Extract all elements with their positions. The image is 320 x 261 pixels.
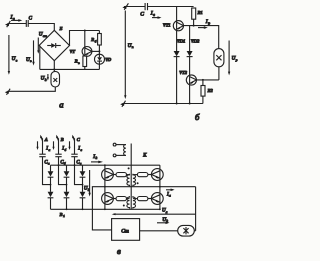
node center tap crossing bbox=[104, 186, 106, 188]
diode VD-B2 bbox=[64, 192, 70, 210]
transistor VT1 bbox=[163, 7, 184, 31]
svg-text:л: л bbox=[168, 194, 171, 198]
node bus-lamp junction bbox=[53, 68, 55, 70]
wire node to transistor base bbox=[84, 31, 86, 48]
transformer lower-right winding bbox=[133, 196, 136, 209]
label Uп voltage arrow bbox=[124, 11, 134, 100]
node lamp feed right pair bbox=[159, 186, 161, 188]
lamp EL (discharge lamp, circuit a) bbox=[51, 71, 60, 87]
svg-text:в: в bbox=[16, 59, 18, 63]
terminal phase C bbox=[72, 135, 81, 142]
svg-text:в: в bbox=[117, 246, 121, 256]
wire collector to node bbox=[92, 50, 100, 52]
node VT-TL collector on bus bbox=[104, 164, 106, 166]
label Iв current arrow bbox=[10, 15, 23, 22]
diode VD-C1 bbox=[80, 165, 86, 192]
wire bridge right corner to top-right rail bbox=[70, 31, 100, 46]
wire bus corner to VT-TR bbox=[159, 165, 161, 169]
svg-text:э: э bbox=[78, 61, 80, 65]
resistor Rб bbox=[90, 31, 101, 52]
wire lamp to bottom rail bbox=[8, 87, 56, 91]
base resistor R-BR bbox=[133, 197, 152, 201]
block St (stabilizer) bbox=[112, 219, 140, 241]
transistor VT-BL bbox=[102, 193, 114, 205]
terminal output bottom-left (circuit a) bbox=[5, 89, 10, 95]
label IC current arrow bbox=[68, 141, 82, 152]
wire VT-BL to bottom rail bbox=[104, 204, 106, 210]
svg-text:б: б bbox=[95, 39, 97, 43]
svg-text:VT1: VT1 bbox=[163, 22, 171, 27]
node bus crossing C bbox=[74, 164, 76, 166]
label Uд voltage arrow (dc link) bbox=[84, 170, 91, 197]
svg-text:VT2: VT2 bbox=[179, 70, 187, 75]
transistor VT-TL bbox=[102, 169, 114, 181]
terminal phase B bbox=[56, 135, 64, 142]
bridge rectifier Б (diamond) bbox=[39, 26, 69, 61]
label Uэ voltage arrow bbox=[26, 40, 35, 65]
svg-text:а: а bbox=[48, 162, 50, 166]
label Iр current arrow bbox=[198, 19, 210, 29]
wire collector rail to lamp bbox=[184, 26, 219, 49]
svg-text:C: C bbox=[29, 16, 33, 21]
capacitor C (circuit b) bbox=[140, 3, 147, 18]
label IB current arrow bbox=[52, 141, 66, 152]
transistor VT-TR bbox=[151, 169, 163, 181]
transformer primary lower-left winding bbox=[127, 196, 130, 209]
wire bottom rail (circuit b) bbox=[123, 103, 203, 105]
node R2 junction bbox=[202, 79, 204, 81]
svg-text:с: с bbox=[81, 148, 83, 152]
label Iд current arrow bbox=[91, 155, 103, 163]
node leg C bottom bbox=[82, 208, 84, 210]
transformer upper-right winding bbox=[133, 174, 136, 187]
diode VD-A2 bbox=[48, 192, 54, 210]
label Uу with arrow bbox=[157, 218, 170, 224]
svg-text:VD1: VD1 bbox=[177, 39, 185, 44]
label Iв current arrow (circuit b) bbox=[150, 11, 162, 19]
wire stabilizer to lamp bbox=[140, 230, 178, 232]
node collector junction bbox=[98, 50, 100, 52]
winding K (drive coil) bbox=[124, 145, 126, 156]
node leg B mid bbox=[66, 184, 68, 186]
label Uд voltage arrow (lamp a) bbox=[41, 74, 49, 82]
wire VT-TL emitter to VT-BL bbox=[104, 180, 106, 194]
wire lamp right lead bbox=[194, 230, 195, 232]
svg-text:C: C bbox=[140, 12, 144, 18]
drive winding terminals bbox=[113, 143, 126, 157]
wire capacitor to bridge top bbox=[28, 24, 54, 31]
wire bus to VT-TL bbox=[104, 165, 106, 169]
feedback arrow to stabilizer bbox=[112, 213, 196, 215]
svg-text:1: 1 bbox=[63, 214, 65, 218]
node R1 junction bbox=[193, 25, 195, 27]
wire capacitor to R1 top bbox=[148, 6, 194, 8]
wire phase A column lower with jog bbox=[43, 157, 51, 185]
node leg B bottom bbox=[66, 208, 68, 210]
svg-text:Ст: Ст bbox=[121, 229, 129, 235]
terminal input top-left (circuit b) bbox=[122, 3, 128, 10]
terminal input top-left (circuit a) bbox=[5, 21, 10, 27]
node leg C mid bbox=[82, 184, 84, 186]
node VT-BL emitter on rail bbox=[104, 208, 106, 210]
capacitor CА bbox=[39, 154, 50, 165]
svg-text:B: B bbox=[61, 137, 64, 142]
wire phase A column upper bbox=[42, 138, 44, 154]
transistor VT bbox=[70, 47, 92, 57]
svg-text:VD2: VD2 bbox=[191, 39, 200, 44]
wire VT-BR to bottom rail bbox=[159, 204, 161, 210]
diode VD2 bbox=[187, 26, 200, 76]
wire top dc bus bbox=[51, 164, 160, 166]
wire top (input to capacitor C) bbox=[8, 23, 27, 25]
wire top left to capacitor bbox=[124, 6, 145, 8]
svg-text:R1: R1 bbox=[197, 10, 203, 15]
diode VD-C2 bbox=[80, 192, 86, 210]
svg-text:а: а bbox=[49, 148, 51, 152]
svg-text:VD: VD bbox=[105, 57, 112, 62]
capacitor CB bbox=[55, 154, 66, 165]
terminal phase A bbox=[40, 135, 48, 142]
wire phase B column lower with jog bbox=[59, 157, 67, 185]
svg-text:р: р bbox=[235, 58, 238, 62]
diode VD1 bbox=[174, 30, 186, 104]
wire bottom dc rail bbox=[51, 208, 160, 210]
node leg A mid bbox=[50, 184, 52, 186]
node VT2 emitter junction bbox=[189, 103, 191, 105]
indicator VD (circle with cross) bbox=[95, 51, 112, 69]
transformer core bbox=[130, 144, 132, 210]
node VT-BR emitter on rail bbox=[159, 208, 161, 210]
svg-text:б: б bbox=[195, 112, 200, 122]
diode inside bridge bbox=[47, 43, 61, 48]
svg-text:л: л bbox=[165, 210, 168, 214]
wire center tap to stabilizer bbox=[92, 187, 195, 230]
svg-text:Б: Б bbox=[59, 26, 63, 31]
label B1 rectifier block bbox=[60, 212, 66, 218]
transistor VT2 bbox=[179, 70, 196, 85]
wire bridge bottom to lamp bbox=[53, 61, 55, 72]
svg-text:R: R bbox=[90, 37, 94, 42]
label IА current arrow bbox=[36, 141, 50, 152]
svg-text:К: К bbox=[142, 154, 147, 159]
wire VT2 emitter to bottom rail bbox=[189, 84, 191, 103]
svg-text:в: в bbox=[153, 13, 155, 17]
svg-text:р: р bbox=[207, 21, 210, 25]
svg-text:R2: R2 bbox=[207, 88, 214, 93]
transistor VT-BR bbox=[151, 193, 163, 205]
node bus crossing B bbox=[58, 164, 60, 166]
svg-text:вт: вт bbox=[43, 34, 47, 38]
capacitor C bbox=[26, 16, 32, 27]
wire phase B column upper bbox=[58, 138, 60, 154]
wire right frame down bbox=[195, 187, 197, 231]
polarity dot upper bbox=[137, 182, 139, 184]
base resistor R-TR bbox=[133, 173, 152, 177]
label Uр voltage arrow bbox=[228, 41, 238, 76]
node junction base feed bbox=[84, 30, 86, 32]
label Uв voltage arrow bbox=[8, 35, 18, 75]
terminal output bottom-left (circuit b) bbox=[120, 101, 125, 107]
label Uл bbox=[162, 209, 168, 214]
svg-text:R: R bbox=[74, 59, 78, 64]
wire phase C column lower with jog bbox=[75, 157, 83, 185]
svg-text:п: п bbox=[132, 45, 134, 49]
svg-text:A: A bbox=[44, 137, 48, 142]
label Iл current arrow bbox=[166, 189, 175, 198]
svg-text:э: э bbox=[30, 59, 32, 63]
svg-text:д: д bbox=[45, 78, 47, 82]
svg-text:д: д bbox=[96, 156, 98, 160]
svg-text:а: а bbox=[59, 100, 63, 110]
svg-text:В: В bbox=[60, 212, 63, 217]
transformer primary upper-left winding bbox=[127, 174, 130, 187]
base resistor R-TL bbox=[113, 173, 129, 177]
diode VD-A1 bbox=[48, 165, 54, 192]
lamp EL (discharge lamp, circuit b) bbox=[214, 49, 224, 80]
lamp EL (circuit v) bbox=[178, 225, 195, 236]
diode VD-B1 bbox=[64, 165, 70, 192]
base resistor R-BL bbox=[113, 197, 129, 201]
label Uвт voltage arrow bbox=[37, 32, 47, 54]
polarity dot lower bbox=[123, 205, 125, 207]
wire phase C column upper bbox=[74, 138, 76, 154]
wire bridge left corner down bbox=[39, 46, 41, 70]
svg-text:б: б bbox=[65, 148, 67, 152]
capacitor CC bbox=[71, 154, 82, 165]
node VD1 bottom junction bbox=[176, 103, 178, 105]
svg-text:C: C bbox=[77, 137, 81, 142]
svg-text:VT: VT bbox=[70, 49, 76, 54]
resistor R2 bbox=[201, 80, 213, 104]
wire VT2 collector to lamp bottom bbox=[197, 79, 219, 81]
wire bottom bus bbox=[40, 68, 100, 70]
resistor Rэ bbox=[74, 55, 87, 69]
resistor R1 bbox=[192, 8, 203, 26]
wire VT-TR emitter to VT-BR bbox=[159, 180, 161, 194]
